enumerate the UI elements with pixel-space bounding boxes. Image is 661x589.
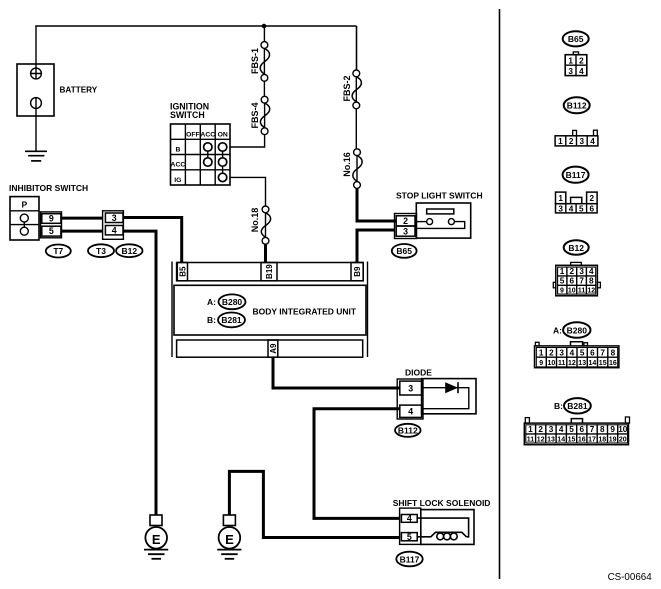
wire battery positive to top rail [35,26,37,68]
svg-text:T3: T3 [96,246,106,256]
svg-text:E: E [225,532,234,547]
svg-text:18: 18 [598,437,606,444]
svg-text:SHIFT LOCK SOLENOID: SHIFT LOCK SOLENOID [393,498,491,508]
svg-text:P: P [21,200,27,210]
wire pin 3 to unit pin B5 [123,218,182,263]
svg-text:FBS-2: FBS-2 [342,75,352,101]
fuse No.16 [353,149,362,189]
svg-text:11: 11 [558,360,566,367]
wire pin 4 to ground E1 [123,231,156,515]
svg-text:4: 4 [559,425,564,434]
svg-text:5: 5 [49,226,54,236]
svg-text:B112: B112 [398,426,418,436]
connector T7 [46,245,71,258]
svg-text:16: 16 [578,437,586,444]
svg-text:B117: B117 [566,170,586,180]
svg-text:7: 7 [579,277,584,286]
svg-text:No.16: No.16 [342,152,352,177]
svg-text:5: 5 [569,425,574,434]
svg-text:B280: B280 [567,325,588,335]
connector pinout B12 [553,240,600,296]
svg-text:9: 9 [560,288,564,295]
wire stop light pin 3 to unit pin B9 [357,230,395,263]
svg-text:T7: T7 [53,246,63,256]
svg-text:2: 2 [590,194,595,203]
svg-text:A9: A9 [269,343,278,354]
svg-text:3: 3 [403,226,408,236]
connector pins 2/3 at stop light switch [395,214,417,239]
svg-text:FBS-4: FBS-4 [250,102,260,128]
connector pins 4/5 at solenoid [400,508,421,544]
svg-text:1: 1 [568,56,573,65]
svg-text:10: 10 [548,360,556,367]
svg-text:17: 17 [588,437,596,444]
svg-text:6: 6 [590,348,595,357]
svg-text:4: 4 [569,204,574,213]
wire pin 5 to pin 4 [62,230,103,233]
svg-text:6: 6 [590,204,595,213]
svg-text:12: 12 [568,360,576,367]
wire ignition IG row to fuse No.18 [230,177,266,206]
ignition switch label [170,101,209,120]
diode D1 [422,379,476,414]
wire No.16 to stop light switch pin 2 [357,188,396,221]
svg-text:B:: B: [207,315,216,325]
svg-text:B12: B12 [122,246,138,256]
svg-text:14: 14 [557,437,565,444]
svg-text:11: 11 [578,288,586,295]
connector pins 3/4 at diode [397,379,423,419]
svg-text:3: 3 [558,204,563,213]
wire top rail to FBS-2 [356,26,358,70]
svg-text:B281: B281 [567,401,588,411]
connector pins 9/5 at inhibitor switch [41,212,62,238]
svg-text:12: 12 [587,288,595,295]
svg-text:OFF: OFF [186,131,200,138]
svg-text:3: 3 [568,67,573,76]
svg-text:B65: B65 [568,34,584,44]
svg-text:E: E [152,532,161,547]
svg-text:7: 7 [600,348,605,357]
ground E2 [217,515,241,559]
svg-text:2: 2 [403,216,408,226]
svg-text:B65: B65 [396,246,412,256]
svg-text:3: 3 [580,137,585,146]
svg-text:BODY INTEGRATED UNIT: BODY INTEGRATED UNIT [253,307,357,317]
wire battery negative to ground [35,108,37,151]
fuse No.18 [261,206,270,244]
svg-text:1: 1 [528,425,533,434]
svg-text:2: 2 [549,348,554,357]
svg-text:DIODE: DIODE [405,368,432,378]
ground E1 [144,515,168,559]
ground battery [25,151,47,161]
svg-text:B: B [175,147,180,154]
svg-text:13: 13 [578,360,586,367]
wire ground E2 to solenoid pin 5 [229,471,399,537]
connector pins 3/4 (T3/B12) [103,211,124,240]
connector pinout B117 [556,167,598,214]
svg-text:19: 19 [609,437,617,444]
svg-text:2: 2 [579,56,584,65]
svg-text:10: 10 [568,288,576,295]
svg-text:ACC: ACC [200,132,215,139]
svg-text:B:: B: [554,401,563,411]
connector B117 [396,552,422,567]
svg-text:9: 9 [49,214,54,224]
wire pin 9 to pin 3 [62,217,103,220]
svg-text:5: 5 [579,204,584,213]
wire FBS-4 to ignition switch B row [230,135,265,147]
svg-text:2: 2 [538,425,543,434]
svg-text:B281: B281 [221,315,242,325]
wire diode pin 4 to solenoid pin 4 [314,409,400,519]
svg-text:B5: B5 [178,266,187,277]
svg-text:10: 10 [618,425,628,434]
svg-text:1: 1 [558,194,563,203]
svg-text:14: 14 [589,360,597,367]
svg-text:4: 4 [579,67,584,76]
svg-text:2: 2 [570,267,575,276]
svg-text:3: 3 [408,383,413,393]
svg-text:STOP LIGHT SWITCH: STOP LIGHT SWITCH [396,191,483,201]
connector pinout B112 [555,97,598,146]
svg-text:2: 2 [569,137,574,146]
svg-text:A:: A: [207,297,216,307]
battery B1 [17,64,54,116]
svg-text:5: 5 [580,348,585,357]
svg-text:SWITCH: SWITCH [170,110,205,120]
svg-text:4: 4 [407,514,412,524]
connector B12 [116,244,142,257]
wire top rail [35,25,356,27]
fuse FBS-1 [260,42,269,82]
svg-text:A:: A: [553,325,562,335]
svg-text:12: 12 [537,437,545,444]
svg-text:5: 5 [560,277,565,286]
ignition switch column/row labels [171,131,228,184]
svg-text:4: 4 [408,406,413,416]
svg-text:3: 3 [559,348,564,357]
svg-text:B280: B280 [222,297,243,307]
wire No.18 to unit pin B19 [264,244,267,262]
ignition switch SW1 [171,124,231,185]
svg-text:3: 3 [112,213,117,223]
unit label A: B280 [207,294,246,309]
svg-text:6: 6 [570,277,575,286]
stop light switch SW3 [416,203,470,238]
svg-text:4: 4 [570,348,575,357]
svg-text:B9: B9 [353,266,362,277]
svg-text:20: 20 [619,437,627,444]
wire FBS-2 to fuse No.16 [355,109,357,149]
wire unit pin A9 to diode pin 3 [273,357,400,388]
svg-text:9: 9 [610,425,615,434]
node junction top rail [262,24,267,29]
svg-text:ACC: ACC [171,162,186,169]
wire junction to FBS-1 [263,26,265,42]
svg-text:ON: ON [218,132,228,139]
separator line [499,9,501,579]
svg-text:9: 9 [539,360,543,367]
fuse FBS-4 [260,96,269,134]
svg-text:15: 15 [599,360,607,367]
svg-text:8: 8 [611,348,616,357]
svg-text:8: 8 [589,277,594,286]
svg-text:4: 4 [589,267,594,276]
svg-text:11: 11 [527,437,535,444]
inhibitor switch SW2 [10,197,39,240]
svg-text:INHIBITOR SWITCH: INHIBITOR SWITCH [9,183,88,193]
fuse FBS-2 [352,70,361,109]
connector B112 [395,424,421,437]
svg-text:IG: IG [174,177,181,184]
svg-text:6: 6 [580,425,585,434]
svg-text:1: 1 [539,348,544,357]
svg-text:16: 16 [609,360,617,367]
svg-text:3: 3 [549,425,554,434]
svg-text:BATTERY: BATTERY [60,86,98,95]
svg-text:7: 7 [590,425,595,434]
svg-text:13: 13 [547,437,555,444]
svg-text:B12: B12 [568,243,584,253]
connector B65 [392,244,417,258]
svg-text:8: 8 [600,425,605,434]
svg-text:B112: B112 [567,101,587,111]
svg-text:1: 1 [558,137,563,146]
body integrated unit U1 [172,262,368,358]
svg-text:4: 4 [112,226,117,236]
shift lock solenoid L1 [417,510,474,545]
svg-text:1: 1 [560,267,565,276]
wire FBS-1 to FBS-4 [263,81,265,96]
svg-text:B19: B19 [265,264,274,279]
svg-text:FBS-1: FBS-1 [250,48,260,74]
svg-text:3: 3 [579,267,584,276]
svg-text:5: 5 [407,532,412,542]
svg-text:CS-00664: CS-00664 [608,572,653,583]
svg-text:4: 4 [590,137,595,146]
connector pinout A: B280 [535,322,619,367]
connector T3 [88,244,114,257]
svg-text:B117: B117 [400,554,420,564]
connector pinout B65 [563,31,589,76]
unit label B: B281 [207,313,245,328]
connector pinout B: B281 [524,398,629,445]
svg-text:15: 15 [568,437,576,444]
svg-text:No.18: No.18 [250,208,260,233]
